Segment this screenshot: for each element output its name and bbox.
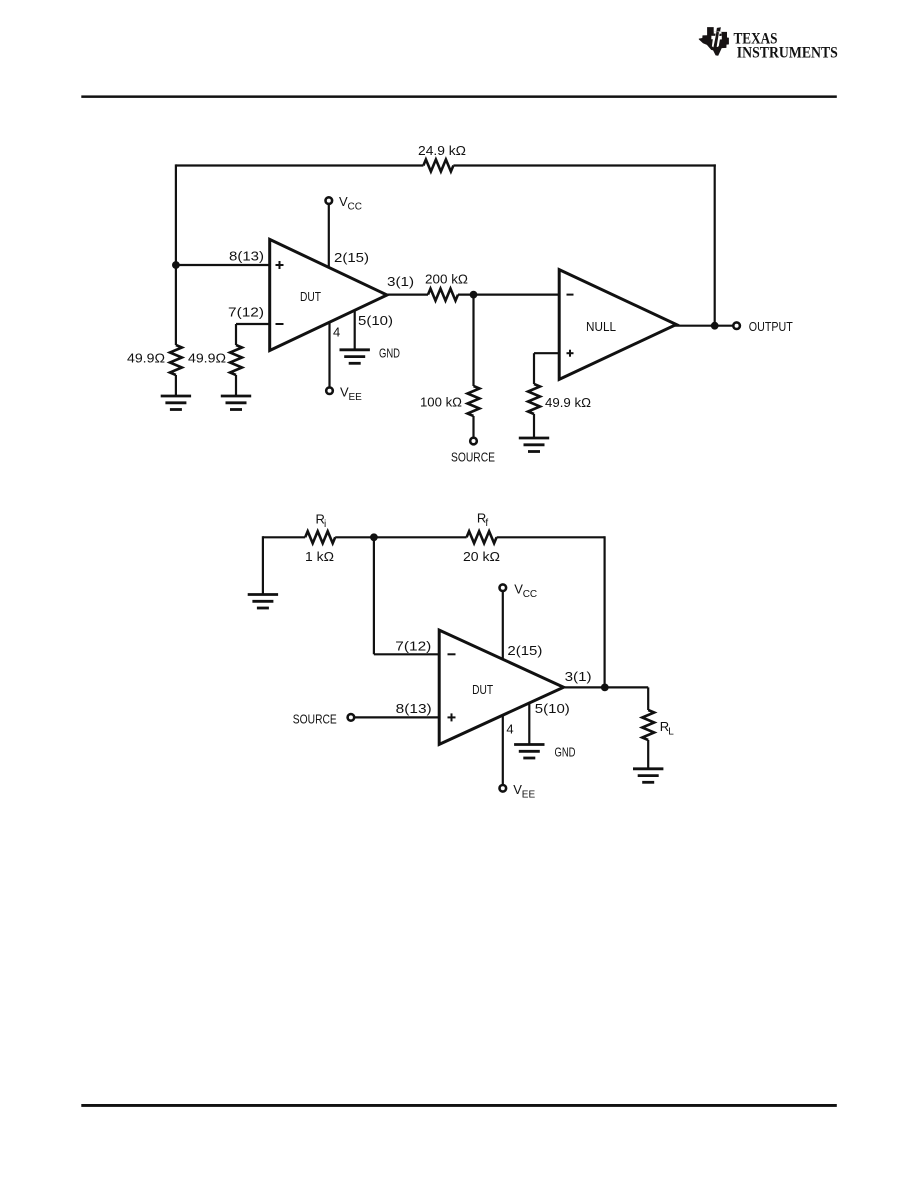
header rule — [81, 95, 837, 98]
label VEE — [340, 385, 362, 404]
node junction output — [711, 322, 719, 330]
svg-text:5(10): 5(10) — [535, 701, 570, 716]
svg-text:SOURCE: SOURCE — [451, 450, 495, 465]
svg-text:GND: GND — [555, 745, 576, 760]
terminal SOURCE — [470, 438, 477, 445]
TI logo wordmark TEXAS INSTRUMENTS — [734, 31, 838, 62]
node junction left — [172, 261, 180, 269]
wire resistor to NULL input — [458, 294, 559, 296]
wire left vertical — [175, 164, 177, 345]
op-amp U1 DUT — [270, 239, 387, 350]
terminal VCC sch2 — [500, 584, 507, 591]
svg-text:DUT: DUT — [472, 682, 493, 697]
svg-text:7(12): 7(12) — [228, 305, 264, 320]
wire top left segment — [263, 536, 305, 538]
wire RL to ground — [647, 740, 649, 768]
wire pin5 to ground sch2 — [528, 703, 530, 744]
wire NULL output — [675, 325, 733, 327]
svg-text:CC: CC — [348, 202, 362, 213]
svg-text:GND: GND — [379, 346, 400, 361]
resistor 49.9 Ohm left — [170, 345, 182, 375]
svg-text:EE: EE — [349, 392, 363, 403]
wire right vertical feedback — [603, 536, 605, 687]
wire feedback top left segment — [176, 164, 424, 166]
op-amp U3 DUT — [439, 630, 563, 744]
label VCC sch2 — [514, 582, 537, 601]
svg-text:8(13): 8(13) — [396, 701, 432, 716]
terminal SOURCE sch2 — [348, 714, 355, 721]
ground GND sch2 — [514, 745, 544, 759]
wire inverting input horizontal — [236, 323, 270, 325]
wire left vertical to ground — [262, 536, 264, 594]
svg-text:100 kΩ: 100 kΩ — [420, 395, 462, 410]
op-amp U2 NULL — [559, 270, 676, 380]
node junction mid — [470, 291, 478, 299]
svg-text:1 kΩ: 1 kΩ — [305, 549, 334, 564]
wire to inverting input — [374, 653, 439, 655]
label VEE sch2 — [513, 782, 535, 801]
ground left — [161, 396, 191, 410]
wire top right segment — [497, 536, 605, 538]
svg-text:24.9 kΩ: 24.9 kΩ — [418, 143, 466, 158]
wire feedback top right segment — [453, 164, 715, 166]
wire to noninverting input — [176, 264, 270, 266]
resistor RL — [642, 710, 654, 740]
wire inverting input vertical — [235, 324, 237, 345]
ref label RL — [660, 719, 675, 738]
terminal VEE — [326, 387, 333, 394]
node junction Ri Rf — [370, 533, 378, 541]
TI logo Texas map — [699, 27, 729, 56]
wire feedback vertical — [714, 164, 716, 325]
svg-text:20 kΩ: 20 kΩ — [463, 549, 500, 564]
svg-text:L: L — [668, 727, 674, 738]
wire source to plus input — [355, 716, 440, 718]
wire VCC lead — [328, 204, 330, 267]
svg-text:2(15): 2(15) — [334, 250, 369, 265]
svg-text:2(15): 2(15) — [507, 643, 542, 658]
ground RL — [633, 769, 663, 783]
wire pin5 to ground — [354, 310, 356, 349]
terminal OUTPUT — [733, 322, 740, 329]
svg-text:SOURCE: SOURCE — [293, 712, 337, 727]
ref label Ri — [316, 512, 327, 531]
wire VCC2 lead — [502, 591, 504, 659]
svg-text:5(10): 5(10) — [358, 313, 393, 328]
wire RL top lead — [647, 687, 649, 710]
resistor Ri — [305, 531, 335, 543]
resistor 49.9 Ohm right — [230, 345, 242, 375]
svg-text:49.9 kΩ: 49.9 kΩ — [545, 395, 591, 410]
svg-text:4: 4 — [506, 722, 513, 737]
wire 49.9k to ground — [533, 414, 535, 437]
resistor Rf — [467, 531, 497, 543]
svg-text:i: i — [324, 519, 326, 530]
svg-text:7(12): 7(12) — [395, 639, 431, 654]
resistor 49.9 kOhm — [528, 384, 540, 414]
svg-text:8(13): 8(13) — [229, 249, 264, 264]
wire pin4 to VEE sch2 — [502, 715, 504, 785]
svg-text:4: 4 — [333, 325, 340, 340]
svg-text:NULL: NULL — [586, 319, 616, 334]
terminal VCC — [326, 197, 333, 204]
svg-text:EE: EE — [522, 790, 536, 801]
wire 100k to source — [472, 416, 474, 437]
ground left sch2 — [248, 595, 278, 609]
resistor 24.9 kOhm — [423, 160, 453, 172]
svg-text:3(1): 3(1) — [565, 669, 592, 684]
svg-text:DUT: DUT — [300, 289, 321, 304]
svg-text:49.9Ω: 49.9Ω — [127, 351, 165, 366]
terminal VEE sch2 — [500, 785, 507, 792]
label VCC — [339, 194, 362, 213]
wire 49.9 right to ground — [235, 375, 237, 395]
node junction output sch2 — [601, 684, 609, 692]
wire plus to 49.9k — [533, 353, 535, 384]
wire node down — [373, 537, 375, 654]
wire between Ri and Rf — [335, 536, 466, 538]
svg-text:3(1): 3(1) — [387, 274, 414, 289]
svg-text:CC: CC — [523, 589, 537, 600]
svg-text:f: f — [485, 518, 488, 529]
ground GND DUT — [340, 350, 370, 364]
wire pin4 to VEE — [328, 322, 330, 387]
ref label Rf — [477, 511, 489, 530]
wire node to 100k — [472, 295, 474, 386]
svg-text:49.9Ω: 49.9Ω — [188, 351, 226, 366]
wire output pin 3 — [386, 294, 428, 296]
wire 49.9 left to ground — [175, 375, 177, 395]
resistor 100 kOhm — [468, 386, 480, 416]
footer rule — [81, 1104, 837, 1107]
ground right — [221, 396, 251, 410]
wire output sch2 — [563, 686, 649, 688]
svg-text:INSTRUMENTS: INSTRUMENTS — [737, 44, 838, 61]
svg-text:OUTPUT: OUTPUT — [749, 319, 793, 334]
resistor 200 kOhm — [428, 289, 458, 301]
ground NULL — [519, 438, 549, 452]
wire NULL plus input — [534, 352, 559, 354]
svg-text:200 kΩ: 200 kΩ — [425, 272, 468, 287]
